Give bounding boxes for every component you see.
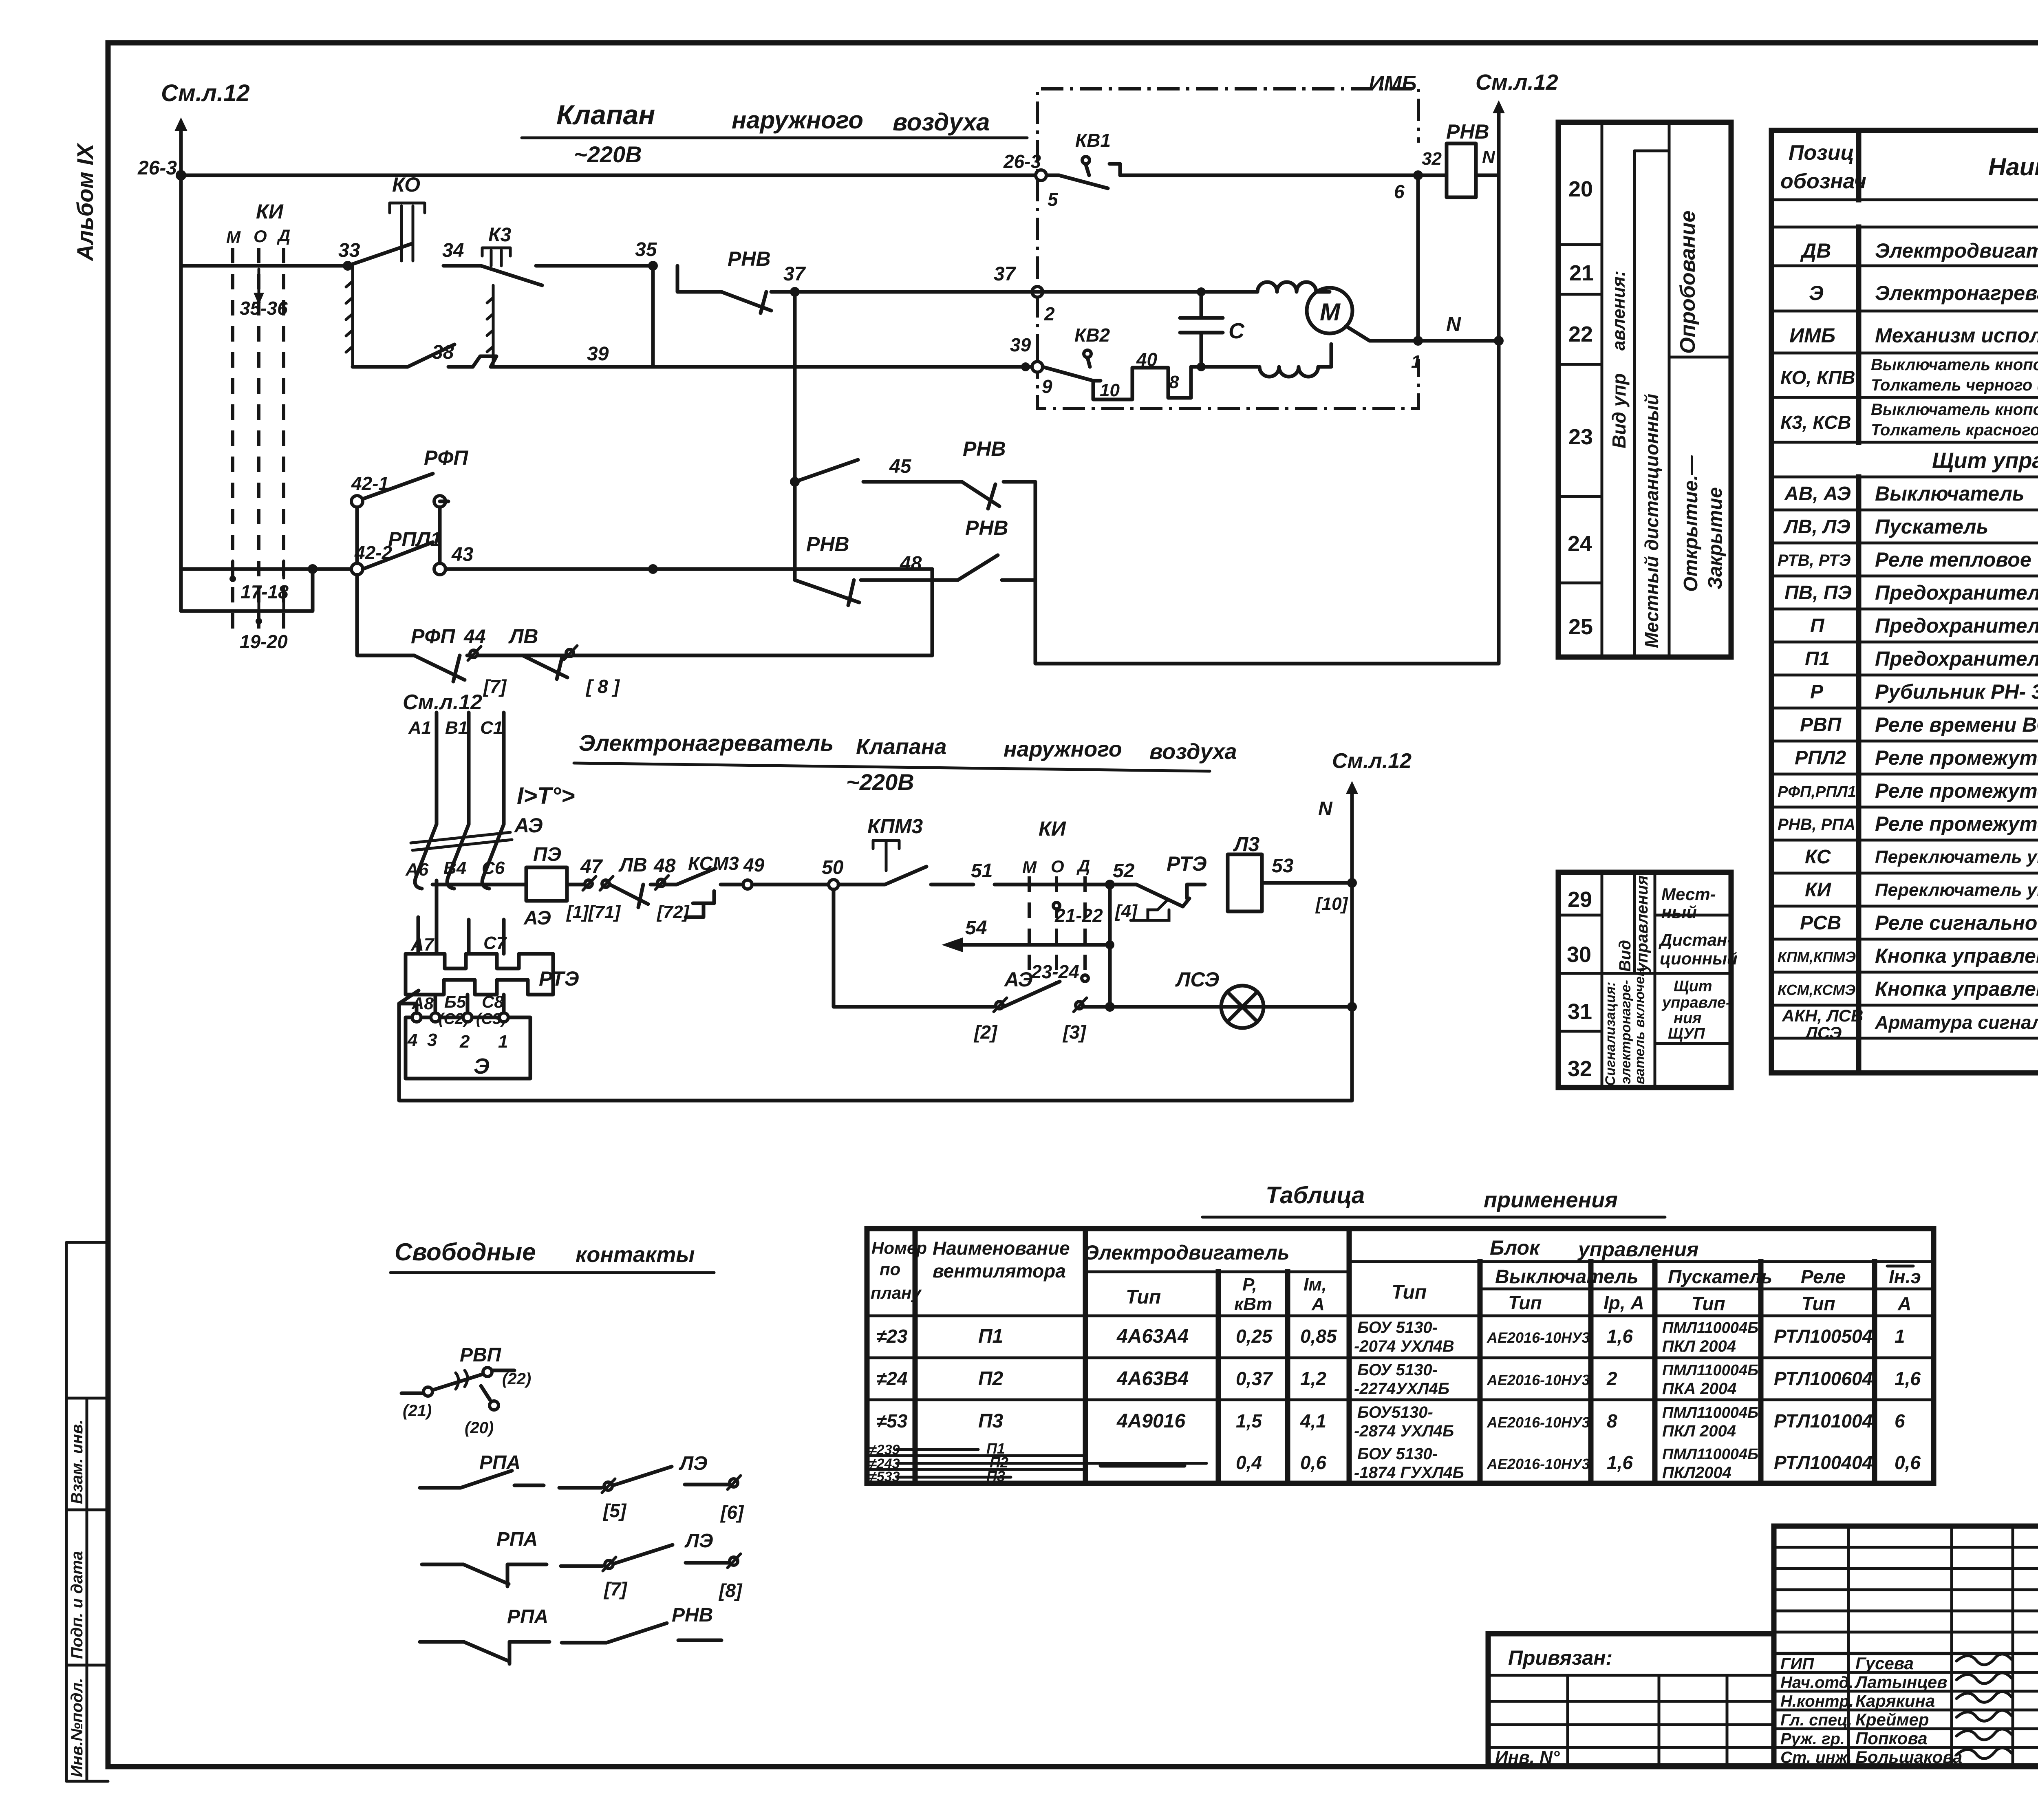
svg-text:24: 24 <box>1568 532 1592 556</box>
svg-text:33: 33 <box>338 240 360 261</box>
svg-text:РВП: РВП <box>460 1344 502 1366</box>
svg-text:ционный: ционный <box>1660 949 1738 968</box>
svg-text:32: 32 <box>1568 1057 1592 1081</box>
svg-text:29: 29 <box>1568 887 1592 912</box>
limit switch KV1 <box>1059 130 1120 188</box>
application table data <box>869 1319 1921 1485</box>
svg-text:~220В: ~220В <box>846 769 914 795</box>
svg-text:23: 23 <box>1568 425 1593 449</box>
svg-text:[7]: [7] <box>483 676 507 697</box>
svg-text:44: 44 <box>463 626 485 648</box>
contact 48 KSM3 <box>653 853 743 922</box>
svg-text:КВ2: КВ2 <box>1074 324 1110 346</box>
svg-text:Взам. инв.: Взам. инв. <box>68 1420 86 1504</box>
svg-text:электронагре-: электронагре- <box>1618 980 1634 1084</box>
svg-text:РНВ: РНВ <box>806 533 849 556</box>
svg-text:20: 20 <box>1568 177 1593 201</box>
svg-text:АЕ2016-10НУ3: АЕ2016-10НУ3 <box>1487 1414 1590 1431</box>
svg-text:РНВ: РНВ <box>963 437 1006 460</box>
svg-text:См.л.12: См.л.12 <box>161 80 250 106</box>
svg-text:35-36: 35-36 <box>240 298 288 319</box>
svg-text:Руж. гр.: Руж. гр. <box>1780 1730 1845 1748</box>
node 33 <box>338 240 360 271</box>
svg-text:Iм,: Iм, <box>1304 1275 1327 1295</box>
node: see sheet 12 (left riser) <box>161 80 250 611</box>
svg-text:21: 21 <box>1569 261 1594 285</box>
svg-text:[7]: [7] <box>603 1578 628 1599</box>
svg-text:Инв.№подл.: Инв.№подл. <box>68 1678 86 1777</box>
svg-text:Реле промежуточное РПУ-1-: Реле промежуточное РПУ-1- 361 <box>1875 746 2038 769</box>
svg-text:Местный дистанционный: Местный дистанционный <box>1641 394 1662 648</box>
svg-text:26-3: 26-3 <box>137 157 177 179</box>
svg-text:Выключатель: Выключатель <box>1875 482 2025 505</box>
svg-text:[4]: [4] <box>1114 901 1138 921</box>
svg-text:П1: П1 <box>1805 648 1830 670</box>
svg-text:37: 37 <box>783 263 806 285</box>
svg-text:Реле тепловое: Реле тепловое <box>1875 548 2031 571</box>
svg-text:Толкатель черного цвета , на: Толкатель черного цвета , надпись „Пуск" <box>1871 376 2038 394</box>
svg-text:Ст. инж.: Ст. инж. <box>1780 1749 1852 1767</box>
svg-text:КПМ3: КПМ3 <box>867 815 923 838</box>
application table header text <box>871 1236 1921 1314</box>
svg-text:В1: В1 <box>445 718 468 738</box>
wire: rung 42 main <box>181 528 932 575</box>
svg-text:РСВ: РСВ <box>1800 912 1841 934</box>
svg-text:М: М <box>1320 298 1341 326</box>
svg-text:БОУ 5130-: БОУ 5130- <box>1357 1319 1438 1337</box>
parts rows <box>1778 201 2038 1042</box>
svg-text:РПА: РПА <box>479 1452 521 1474</box>
fuse PE <box>526 844 584 901</box>
svg-text:-2074 УХЛ4В: -2074 УХЛ4В <box>1354 1337 1454 1355</box>
svg-text:ПКЛ 2004: ПКЛ 2004 <box>1662 1337 1736 1355</box>
svg-text:53: 53 <box>1272 855 1294 877</box>
svg-text:Реле промежуточное РПУ-1-32: Реле промежуточное РПУ-1-326 <box>1875 779 2038 802</box>
contact RNV free <box>562 1604 721 1643</box>
svg-text:Номер: Номер <box>871 1238 927 1257</box>
svg-text:N: N <box>1482 147 1495 167</box>
riser N (heater) <box>1318 749 1412 1101</box>
svg-text:8: 8 <box>1607 1410 1617 1432</box>
wire: ~220V top bus <box>181 141 1418 175</box>
node 37/2 on link <box>1032 287 1055 324</box>
svg-text:ПЭ: ПЭ <box>533 844 561 865</box>
svg-text:(22): (22) <box>502 1370 531 1388</box>
svg-text:КО: КО <box>392 173 420 196</box>
svg-text:КСМ,КСМЭ: КСМ,КСМЭ <box>1778 982 1855 998</box>
svg-text:43: 43 <box>451 544 474 565</box>
svg-text:Выключатель кнопочный КЕ011: Выключатель кнопочный КЕ011 , исп.2 <box>1871 401 2038 419</box>
svg-text:9: 9 <box>1042 376 1052 397</box>
wire: rung 37 <box>677 247 1257 313</box>
svg-text:АКН, ЛСВ: АКН, ЛСВ <box>1782 1006 1863 1025</box>
svg-text:32: 32 <box>1422 149 1442 169</box>
svg-text:42-1: 42-1 <box>351 473 389 494</box>
svg-text:воздуха: воздуха <box>1149 739 1237 764</box>
svg-text:40: 40 <box>1136 349 1158 370</box>
svg-text:РТЭ: РТЭ <box>1167 852 1207 875</box>
svg-text:ГИП: ГИП <box>1780 1655 1814 1673</box>
capacitor C <box>1180 287 1245 371</box>
wire: riser 50 down and AE interlock rung <box>834 889 1352 1043</box>
wire: riser from node 37 <box>790 292 800 580</box>
svg-text:1: 1 <box>1411 352 1421 372</box>
svg-text:Предохранитель ПРС -20-П: Предохранитель ПРС -20-П <box>1875 614 2038 637</box>
svg-text:34: 34 <box>442 240 464 261</box>
svg-text:P,: P, <box>1242 1275 1257 1295</box>
contact RFP parallel branch 42-1 <box>351 446 468 563</box>
svg-text:РПЛ1: РПЛ1 <box>388 528 441 551</box>
svg-text:Д: Д <box>277 226 290 245</box>
svg-text:КИ: КИ <box>1805 879 1832 901</box>
svg-text:~220В: ~220В <box>574 141 642 167</box>
control mode table upper <box>1558 122 1731 657</box>
svg-text:Электронагреватель: Электронагреватель <box>579 730 834 756</box>
net label 26-3 (left) <box>137 157 177 179</box>
node 39/9 with KV2 <box>1010 334 1052 397</box>
svg-text:РТЛ100404: РТЛ100404 <box>1774 1452 1873 1473</box>
wire: phase B1 <box>445 713 469 824</box>
wire: riser 52 down <box>1108 885 1112 1007</box>
svg-text:РНВ, РПА: РНВ, РПА <box>1778 816 1855 834</box>
svg-text:Тип: Тип <box>1126 1286 1161 1308</box>
contactor contact KO <box>348 173 425 266</box>
svg-text:Рубильник РН- 31320: Рубильник РН- 31320 <box>1875 680 2038 703</box>
svg-text:Привязан:: Привязан: <box>1508 1646 1612 1669</box>
svg-text:(21): (21) <box>403 1402 432 1420</box>
parts table header <box>1780 141 2038 193</box>
svg-text:1,6: 1,6 <box>1607 1452 1633 1473</box>
svg-text:Попкова: Попкова <box>1855 1729 1928 1748</box>
svg-text:КС: КС <box>1805 846 1831 868</box>
label 51 <box>971 860 1105 885</box>
svg-text:управления:: управления: <box>1633 870 1651 973</box>
svg-text:См.л.12: См.л.12 <box>1476 70 1558 95</box>
svg-text:45: 45 <box>889 456 912 477</box>
svg-text:Б5: Б5 <box>444 992 466 1011</box>
limit switch KV2 with jog boxes 10/40 <box>1043 324 1257 400</box>
wire N from motor <box>1346 313 1504 372</box>
svg-text:ПМЛ110004Б: ПМЛ110004Б <box>1662 1446 1758 1463</box>
svg-text:РТЛ101004: РТЛ101004 <box>1774 1410 1873 1432</box>
svg-text:Большакова: Большакова <box>1855 1747 1962 1767</box>
svg-text:РВП: РВП <box>1800 714 1842 736</box>
svg-text:ЛЭ: ЛЭ <box>684 1530 713 1552</box>
svg-text:Э: Э <box>1809 282 1824 304</box>
title block <box>1488 1526 2038 1799</box>
svg-text:Нач.отд.: Нач.отд. <box>1780 1674 1853 1692</box>
svg-text:Клапана: Клапана <box>856 735 947 759</box>
label I>T> <box>517 783 575 809</box>
svg-text:БОУ 5130-: БОУ 5130- <box>1357 1445 1438 1463</box>
svg-text:0,85: 0,85 <box>1300 1326 1337 1347</box>
svg-text:1,2: 1,2 <box>1300 1368 1326 1389</box>
parts list table <box>1771 130 2038 1073</box>
svg-text:С1: С1 <box>480 718 503 738</box>
svg-text:Блок: Блок <box>1490 1236 1541 1259</box>
svg-text:Переключатель универсальный: Переключатель универсальный ПКУ3- 12С120… <box>1875 880 2038 900</box>
wire: loop 19-20 <box>181 569 313 652</box>
svg-text:Гл. спец.: Гл. спец. <box>1780 1711 1852 1729</box>
svg-text:РПА: РПА <box>496 1529 538 1550</box>
node 26-3 left junction <box>176 170 186 181</box>
svg-text:ПКА 2004: ПКА 2004 <box>1662 1380 1736 1398</box>
album margin label <box>72 142 98 262</box>
svg-text:Вид упр: Вид упр <box>1608 373 1630 448</box>
svg-text:БОУ5130-: БОУ5130- <box>1357 1403 1433 1421</box>
svg-text:2: 2 <box>1044 303 1055 324</box>
svg-text:48: 48 <box>900 553 922 574</box>
svg-text:[72]: [72] <box>656 902 690 922</box>
wire: ladder right side to N <box>1035 482 1499 664</box>
svg-text:АЕ2016-10НУ3: АЕ2016-10НУ3 <box>1487 1456 1590 1472</box>
sheet title <box>522 99 1027 138</box>
svg-text:Предохранитель ПРС-6-П: Предохранитель ПРС-6-П <box>1875 581 2038 604</box>
svg-text:Открытие.—: Открытие.— <box>1680 455 1702 592</box>
svg-text:Арматура сигнальная АЕ 32: Арматура сигнальная АЕ 3252212У2 <box>1875 1012 2038 1033</box>
svg-text:6: 6 <box>1394 181 1405 202</box>
svg-text:Дистан-: Дистан- <box>1659 930 1733 949</box>
svg-text:ИМБ: ИМБ <box>1369 72 1417 95</box>
svg-text:21-22: 21-22 <box>1054 905 1103 926</box>
svg-text:К3, КСВ: К3, КСВ <box>1780 412 1851 433</box>
svg-text:В4: В4 <box>443 858 466 878</box>
svg-text:Iр, А: Iр, А <box>1603 1292 1644 1313</box>
svg-text:N: N <box>1446 313 1461 335</box>
svg-text:Свободные: Свободные <box>395 1238 536 1266</box>
svg-text:≠24: ≠24 <box>876 1368 907 1389</box>
mechanical link hatched (KO) <box>346 266 353 367</box>
svg-text:АВ, АЭ: АВ, АЭ <box>1784 483 1851 505</box>
svg-text:2: 2 <box>459 1032 470 1052</box>
svg-text:Р: Р <box>1810 681 1824 703</box>
wire: phase C1 <box>480 713 504 824</box>
svg-text:5: 5 <box>1048 189 1059 210</box>
svg-text:Электродвигатель: Электродвигатель <box>1084 1241 1290 1264</box>
svg-text:0,6: 0,6 <box>1895 1452 1921 1473</box>
node 52 <box>1105 860 1138 921</box>
svg-text:Iн.э: Iн.э <box>1889 1266 1921 1287</box>
node 26-3 (right) with KV1 <box>1003 151 1059 210</box>
svg-text:Пускатель: Пускатель <box>1668 1266 1772 1287</box>
svg-text:47: 47 <box>580 856 603 878</box>
svg-text:П: П <box>1810 615 1825 637</box>
svg-text:Предохранитель ППТ -10: Предохранитель ППТ -10 <box>1875 647 2038 670</box>
svg-text:Наименование: Наименование <box>1988 153 2038 181</box>
node 35 <box>635 239 658 271</box>
svg-text:плану: плану <box>871 1283 922 1302</box>
svg-text:ватель включен.: ватель включен. <box>1632 964 1648 1084</box>
svg-text:А6: А6 <box>405 860 429 880</box>
heater element E <box>406 1013 530 1079</box>
svg-text:Гусева: Гусева <box>1855 1654 1914 1673</box>
svg-text:Латынцев: Латынцев <box>1854 1672 1948 1692</box>
svg-text:49: 49 <box>743 854 765 876</box>
svg-text:П1: П1 <box>978 1326 1003 1347</box>
svg-text:50: 50 <box>822 857 844 878</box>
wire: phase A1 <box>408 713 437 824</box>
svg-text:РФП: РФП <box>411 625 455 648</box>
svg-text:≠239: ≠239 <box>869 1442 900 1458</box>
svg-text:1: 1 <box>1895 1326 1905 1347</box>
node 34 <box>442 240 464 261</box>
svg-text:М: М <box>226 227 241 247</box>
svg-text:Закрытие: Закрытие <box>1705 487 1726 589</box>
svg-text:П2: П2 <box>978 1368 1004 1390</box>
svg-text:8: 8 <box>1169 372 1179 392</box>
svg-text:КИ: КИ <box>256 200 284 223</box>
svg-text:Наименование: Наименование <box>933 1238 1070 1259</box>
svg-text:[1][71]: [1][71] <box>566 902 621 922</box>
svg-text:Щит управления ЩУП1: Щит управления ЩУП1 <box>1932 448 2038 473</box>
svg-text:39: 39 <box>1010 334 1031 355</box>
svg-text:РТЭ: РТЭ <box>539 967 579 990</box>
svg-text:наружного: наружного <box>1004 737 1122 761</box>
svg-text:ПМЛ110004Б: ПМЛ110004Б <box>1662 1404 1758 1421</box>
svg-text:19-20: 19-20 <box>240 631 288 652</box>
svg-text:(20): (20) <box>465 1419 494 1437</box>
svg-text:[2]: [2] <box>973 1021 998 1043</box>
contact RNV rung 48 <box>795 516 1035 605</box>
svg-text:Тип: Тип <box>1392 1282 1427 1303</box>
relay coil L3 <box>1228 833 1357 914</box>
label 17-18 <box>229 561 289 602</box>
svg-text:Подп. и дата: Подп. и дата <box>68 1551 86 1659</box>
svg-text:48: 48 <box>653 855 676 877</box>
breaker AE <box>405 814 543 889</box>
svg-text:≠23: ≠23 <box>876 1326 908 1347</box>
svg-text:Электронагреватель: Электронагреватель <box>1875 282 2038 304</box>
svg-text:Карякина: Карякина <box>1855 1691 1935 1710</box>
free contacts title <box>390 1238 714 1273</box>
svg-text:РНВ: РНВ <box>672 1604 713 1626</box>
svg-text:К3: К3 <box>488 224 512 246</box>
svg-text:Кнопка управления КМЕ 6: Кнопка управления КМЕ 6101 <box>1875 977 2038 1000</box>
svg-text:4А9016: 4А9016 <box>1116 1410 1185 1432</box>
svg-text:вентилятора: вентилятора <box>933 1260 1066 1282</box>
svg-text:АЭ: АЭ <box>514 814 543 837</box>
switch KI (selector) dashed column <box>226 200 290 630</box>
svg-text:Э: Э <box>474 1054 490 1079</box>
svg-text:ПМЛ110004Б: ПМЛ110004Б <box>1662 1319 1758 1337</box>
svg-text:I>T°>: I>T°> <box>517 783 575 809</box>
svg-text:-1874 ГУХЛ4Б: -1874 ГУХЛ4Б <box>1354 1464 1464 1482</box>
svg-text:[5]: [5] <box>602 1500 627 1521</box>
svg-text:17-18: 17-18 <box>240 581 289 602</box>
svg-text:См.л.12: См.л.12 <box>403 690 482 714</box>
svg-text:Механизм исполнительный: Механизм исполнительный <box>1875 324 2038 347</box>
svg-text:Креймер: Креймер <box>1855 1710 1929 1729</box>
svg-text:1,5: 1,5 <box>1236 1410 1262 1432</box>
svg-text:А: А <box>1897 1293 1911 1314</box>
svg-text:контакты: контакты <box>576 1242 695 1267</box>
svg-text:3: 3 <box>427 1030 437 1050</box>
svg-text:[ 8 ]: [ 8 ] <box>585 676 620 697</box>
svg-text:≠53: ≠53 <box>876 1410 908 1432</box>
thermal contact RTE <box>1115 852 1207 920</box>
svg-text:10: 10 <box>1100 380 1120 400</box>
svg-text:1,6: 1,6 <box>1607 1326 1633 1347</box>
svg-text:0,6: 0,6 <box>1300 1452 1326 1473</box>
svg-text:25: 25 <box>1568 615 1593 639</box>
svg-text:М: М <box>1022 858 1037 877</box>
svg-text:54: 54 <box>965 917 987 939</box>
svg-text:Реле промежуточное РПУ-1- 36: Реле промежуточное РПУ-1- 363 <box>1875 812 2038 835</box>
svg-text:См.л.12: См.л.12 <box>1332 749 1412 773</box>
svg-text:обознач: обознач <box>1780 170 1866 193</box>
svg-text:Альбом IX: Альбом IX <box>72 142 98 262</box>
contact LE [5][6] <box>559 1453 744 1523</box>
svg-text:35: 35 <box>635 239 657 260</box>
svg-text:Пускатель: Пускатель <box>1875 515 1988 538</box>
svg-text:Д: Д <box>1076 856 1090 875</box>
svg-text:РТЛ100604: РТЛ100604 <box>1774 1368 1873 1389</box>
svg-text:ЛВ: ЛВ <box>618 854 647 876</box>
svg-text:кВт: кВт <box>1234 1294 1272 1314</box>
svg-text:ДВ: ДВ <box>1800 239 1831 262</box>
svg-text:А: А <box>1311 1294 1325 1314</box>
svg-text:ПКЛ2004: ПКЛ2004 <box>1662 1464 1731 1482</box>
svg-text:О: О <box>254 227 267 246</box>
node 50 <box>822 857 844 889</box>
svg-text:применения: применения <box>1484 1188 1618 1212</box>
contact RPA no2 (nc) <box>422 1529 547 1586</box>
svg-text:ЛВ: ЛВ <box>508 625 538 648</box>
heater section title <box>574 730 1237 795</box>
svg-text:РФП: РФП <box>424 446 468 469</box>
svg-text:0,25: 0,25 <box>1236 1326 1273 1347</box>
svg-text:Выключатель: Выключатель <box>1495 1266 1639 1288</box>
svg-text:Таблица: Таблица <box>1266 1182 1365 1209</box>
svg-text:1: 1 <box>498 1032 508 1052</box>
svg-text:АЕ2016-10НУ3: АЕ2016-10НУ3 <box>1487 1329 1590 1346</box>
svg-text:0,4: 0,4 <box>1236 1452 1262 1473</box>
svg-text:4А63В4: 4А63В4 <box>1116 1368 1189 1390</box>
time relay contact RVP <box>401 1344 531 1437</box>
svg-text:КИ: КИ <box>1039 817 1066 840</box>
svg-text:Тип: Тип <box>1692 1293 1725 1314</box>
svg-text:1,6: 1,6 <box>1895 1368 1921 1389</box>
motor M single phase <box>1257 282 1352 377</box>
svg-text:Позиц: Позиц <box>1789 141 1854 165</box>
svg-text:АЭ: АЭ <box>1004 968 1033 991</box>
svg-text:26-3: 26-3 <box>1003 151 1041 172</box>
svg-text:управле-: управле- <box>1661 994 1731 1011</box>
contact RNV rung 45 <box>795 437 1035 509</box>
svg-text:наружного: наружного <box>732 106 863 134</box>
svg-text:Реле сигнальное РП21/0,015: Реле сигнальное РП21/0,015 <box>1875 911 2038 934</box>
svg-text:52: 52 <box>1113 860 1135 882</box>
svg-text:Опробование: Опробование <box>1676 211 1700 354</box>
svg-text:КО, КПВ: КО, КПВ <box>1780 367 1855 388</box>
riser see sheet 12 (right) <box>1476 70 1558 664</box>
arrow 54 <box>942 917 1114 952</box>
wire: 35 riser down <box>651 266 655 367</box>
svg-text:РНВ: РНВ <box>1446 120 1489 143</box>
svg-text:АЭ: АЭ <box>523 907 551 929</box>
svg-text:С: С <box>1229 319 1245 343</box>
wire: control bus 33-35 <box>181 264 653 268</box>
node: see sheet 12 (heater feed) <box>403 690 482 714</box>
svg-text:39: 39 <box>587 343 609 365</box>
svg-text:Мест-: Мест- <box>1661 885 1716 904</box>
wire: right side rung42 to rung44 <box>931 569 934 655</box>
svg-text:по: по <box>880 1260 900 1279</box>
selector KI heater dashed <box>1022 817 1103 982</box>
svg-text:С8: С8 <box>482 992 504 1011</box>
svg-text:42-2: 42-2 <box>354 542 392 563</box>
svg-text:С6: С6 <box>482 858 505 878</box>
